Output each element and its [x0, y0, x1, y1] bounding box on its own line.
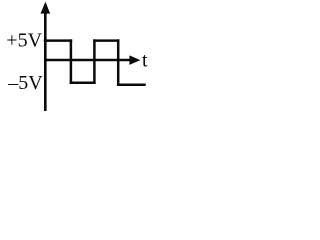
voltage axis (vertical)	[44, 10, 47, 111]
time axis arrowhead	[129, 55, 140, 65]
wire: low segment 1 (-5V)	[71, 82, 95, 85]
wire: high segment 2 (+5V)	[94, 39, 118, 42]
wire: rising edge	[93, 41, 96, 83]
wire: falling edge 2	[117, 41, 120, 85]
svg-text:+5V: +5V	[6, 30, 42, 52]
voltage axis arrowhead	[41, 2, 51, 14]
time axis (horizontal)	[44, 59, 131, 61]
label -5V	[7, 72, 43, 94]
label +5V	[6, 30, 42, 52]
svg-text:t: t	[142, 49, 148, 71]
wire: low segment 2 (-5V)	[118, 83, 144, 86]
label t	[142, 49, 148, 71]
wire: falling edge 1	[70, 41, 73, 83]
svg-text:–5V: –5V	[7, 72, 43, 94]
wire: high segment 1 (+5V)	[45, 39, 71, 42]
